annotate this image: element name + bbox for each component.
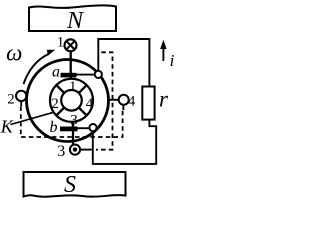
right wire down to resistor [148, 38, 150, 86]
terminal circle a [95, 71, 102, 78]
wire brush b to terminal [77, 127, 89, 129]
dashed back-coil connection left [21, 107, 123, 138]
wire below resistor with jog [149, 120, 156, 164]
svg-text:r: r [159, 87, 169, 112]
K leader line [11, 112, 55, 124]
omega rotation arrow [24, 54, 49, 84]
wire up from terminal a [97, 38, 99, 71]
current arrow i [162, 46, 164, 62]
coil side 1 (current into page) [65, 39, 77, 51]
svg-text:2: 2 [7, 92, 14, 108]
svg-text:ω: ω [6, 41, 22, 66]
commutator shaft inner [61, 90, 82, 111]
svg-text:1: 1 [57, 34, 64, 50]
svg-text:3: 3 [57, 143, 65, 160]
coil 1 lead to commutator [70, 51, 72, 79]
coil side 4 [119, 95, 129, 105]
coil side 2 [16, 91, 26, 101]
svg-text:K: K [0, 117, 14, 137]
top wire [97, 38, 149, 40]
svg-text:4: 4 [128, 94, 136, 110]
dashed box right [96, 52, 113, 149]
svg-text:4: 4 [86, 96, 94, 112]
svg-text:S: S [64, 172, 76, 198]
brush a [61, 73, 77, 78]
svg-text:N: N [66, 8, 85, 34]
wire up to terminal b [92, 131, 94, 165]
brush b [60, 127, 78, 132]
coil 4 connector to rim [109, 99, 119, 101]
svg-text:1: 1 [69, 79, 77, 95]
S pole piece [24, 172, 126, 197]
svg-text:2: 2 [51, 96, 59, 112]
wire from coil 3 to circuit [80, 149, 93, 151]
terminal circle b [89, 124, 96, 131]
rotor rim [27, 60, 109, 142]
resistor r [142, 87, 154, 120]
N pole piece [29, 5, 116, 31]
commutator ring outer [50, 79, 93, 122]
coil 4 stem [122, 105, 124, 110]
bottom wire [93, 163, 157, 165]
commutator spokes [56, 85, 86, 115]
wire brush a to terminal [76, 74, 95, 76]
svg-text:i: i [170, 51, 174, 70]
svg-text:b: b [50, 119, 58, 136]
coil 2 stem [20, 101, 22, 106]
coil 3 lead to commutator [72, 122, 74, 145]
coil side 3 (current out of page) [70, 145, 80, 155]
svg-text:a: a [52, 64, 60, 81]
